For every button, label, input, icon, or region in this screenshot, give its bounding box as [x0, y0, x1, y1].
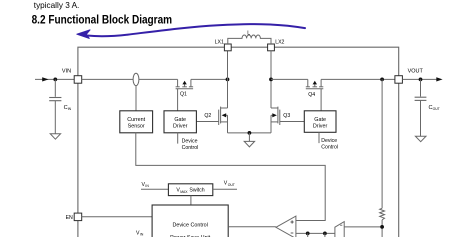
- svg-text:IN: IN: [140, 233, 144, 237]
- block Gate Driver left: [164, 111, 196, 133]
- svg-text:typically 3 A.: typically 3 A.: [34, 1, 80, 10]
- resistor R1: [380, 208, 385, 220]
- node feedback tap: [380, 78, 384, 82]
- node CIN junction: [53, 78, 57, 82]
- wire vmax to device control: [190, 196, 192, 205]
- capacitor COUT: [415, 97, 427, 100]
- tag Device Control left: [177, 133, 179, 144]
- svg-text:Gate: Gate: [174, 117, 186, 123]
- wire Q2 gate: [196, 121, 218, 123]
- transistor Q1: [176, 79, 194, 88]
- node LX2 rail: [269, 78, 273, 82]
- svg-text:Sensor: Sensor: [128, 124, 145, 130]
- wire VIN rail: [82, 78, 133, 80]
- svg-text:IN: IN: [145, 184, 149, 188]
- pin LX2: [268, 44, 275, 51]
- output arrow: [436, 77, 442, 81]
- node minus stub 2: [323, 232, 327, 236]
- transistor Q4: [306, 79, 324, 88]
- wire sense to current sensor: [135, 86, 137, 111]
- svg-text:Q3: Q3: [283, 113, 290, 119]
- ground PGND: [244, 141, 254, 147]
- wire VOUT output: [402, 78, 437, 80]
- svg-text:LX1: LX1: [215, 40, 224, 46]
- svg-text:8.2 Functional Block Diagram: 8.2 Functional Block Diagram: [32, 13, 173, 27]
- svg-text:VIN: VIN: [62, 68, 71, 74]
- svg-text:Power Save Unit: Power Save Unit: [170, 235, 211, 237]
- svg-text:VOUT: VOUT: [408, 68, 424, 74]
- wire feedback from VOUT: [381, 79, 383, 208]
- blue annotation arrow: [87, 24, 305, 36]
- wire Q4 gate: [320, 89, 322, 111]
- capacitor CIN: [49, 98, 61, 101]
- wire vmax out: [213, 188, 237, 190]
- wire device control to comparator: [228, 226, 276, 228]
- svg-text:EN: EN: [66, 215, 73, 221]
- pin LX1: [224, 44, 231, 51]
- block Vmax Switch: [168, 184, 212, 196]
- pin VIN: [74, 76, 82, 84]
- wire Q1 gate: [177, 89, 179, 111]
- wire resistor to node: [381, 220, 383, 238]
- wire current sensor to comparator: [136, 133, 325, 221]
- svg-text:Driver: Driver: [173, 124, 188, 130]
- wire vmax in: [141, 188, 168, 190]
- input arrow: [42, 77, 48, 81]
- wire Q1 to LX1: [191, 78, 228, 80]
- svg-text:Switch: Switch: [189, 188, 204, 194]
- wire CIN to ground: [54, 101, 56, 134]
- blue arrowhead: [77, 30, 90, 39]
- op-amp comparator: [276, 216, 296, 238]
- buffer amplifier: [335, 222, 344, 239]
- wire EN to device control: [82, 216, 152, 218]
- node feedback divider: [380, 225, 384, 229]
- wire Q4 to VOUT: [321, 78, 395, 80]
- current sense element: [133, 73, 139, 85]
- wire CIN: [54, 79, 56, 96]
- wire rail to Q1: [139, 78, 178, 80]
- wire LX1 vertical: [227, 51, 229, 108]
- wire ground stub: [248, 133, 250, 142]
- wire Q2 Q3 sources to ground: [228, 132, 272, 134]
- svg-text:LX2: LX2: [275, 40, 284, 46]
- node minus stub 1: [306, 232, 310, 236]
- svg-text:Gate: Gate: [314, 117, 326, 123]
- svg-text:L: L: [247, 30, 250, 36]
- svg-text:Q2: Q2: [204, 113, 211, 119]
- transistor Q2: [219, 107, 228, 133]
- transistor Q3: [271, 107, 280, 133]
- svg-text:Control: Control: [182, 145, 199, 151]
- node COUT junction: [419, 78, 423, 82]
- svg-text:OUT: OUT: [433, 107, 440, 111]
- svg-text:Control: Control: [321, 145, 338, 151]
- svg-text:Current: Current: [127, 117, 145, 123]
- wire Q3 gate: [280, 121, 305, 123]
- wire LX2 vertical: [270, 51, 272, 108]
- svg-text:Driver: Driver: [313, 124, 328, 130]
- ground COUT: [415, 136, 426, 142]
- svg-text:Q4: Q4: [308, 92, 315, 98]
- IC outline: [78, 47, 399, 238]
- svg-text:MAX: MAX: [180, 190, 188, 194]
- inductor L: [228, 35, 271, 44]
- block Gate Driver right: [304, 111, 336, 133]
- node ground junction: [248, 131, 252, 135]
- svg-text:OUT: OUT: [228, 183, 235, 187]
- wire COUT to ground: [420, 100, 422, 136]
- svg-text:Device Control: Device Control: [173, 222, 208, 228]
- wire comparator minus: [296, 232, 335, 234]
- ground CIN: [50, 134, 60, 140]
- wire LX2 to Q4: [271, 78, 308, 80]
- svg-text:Q1: Q1: [180, 92, 187, 98]
- block Device Control: [152, 205, 228, 239]
- svg-text:Device: Device: [182, 139, 198, 145]
- svg-text:Device: Device: [321, 138, 337, 144]
- wire buffer to feedback node: [344, 226, 382, 228]
- pin EN: [74, 213, 82, 221]
- tag Device Control right: [318, 132, 320, 143]
- wire VIN input: [35, 78, 74, 80]
- svg-text:IN: IN: [68, 107, 72, 111]
- node LX1 rail: [226, 78, 230, 82]
- pin VOUT: [395, 76, 403, 84]
- block Current Sensor: [120, 111, 153, 133]
- wire COUT: [420, 79, 422, 96]
